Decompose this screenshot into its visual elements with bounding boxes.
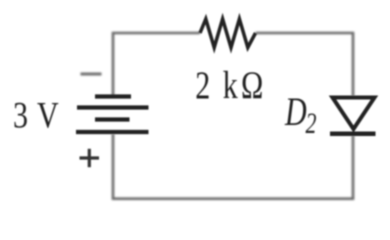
- resistor R 2 kOhm zigzag: [200, 19, 256, 48]
- wire top-left segment: [113, 33, 200, 96]
- wire top-right segment: [256, 33, 354, 96]
- svg-text:2: 2: [306, 107, 317, 140]
- diode D2 cathode bar: [330, 131, 376, 136]
- svg-text:2 kΩ: 2 kΩ: [195, 63, 263, 107]
- battery plate 1 short (top): [95, 94, 131, 98]
- battery plus sign: [80, 149, 100, 167]
- diode D2 triangle (anode): [333, 98, 375, 130]
- wire bottom U segment: [113, 134, 353, 199]
- battery plate 3 short: [95, 117, 130, 121]
- battery plate 4 long (bottom): [76, 130, 149, 134]
- svg-text:D: D: [284, 90, 307, 134]
- battery plate 2 long: [77, 105, 149, 109]
- battery minus sign: [81, 73, 102, 76]
